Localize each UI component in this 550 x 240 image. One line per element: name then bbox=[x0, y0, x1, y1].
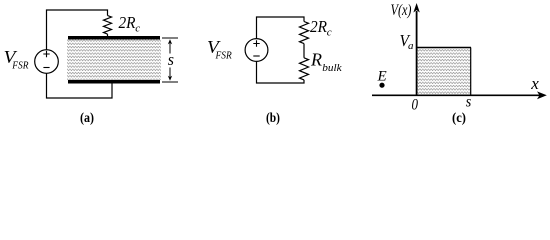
voltage source VFSR (panel b) bbox=[245, 39, 268, 62]
wire: resistor bottom to top electrode bbox=[107, 34, 109, 37]
svg-text:2R: 2R bbox=[119, 13, 136, 32]
svg-text:c: c bbox=[135, 23, 140, 35]
bulk material (hatched) bbox=[67, 40, 161, 81]
svg-text:s: s bbox=[466, 93, 472, 110]
hatched region under V(x) curve bbox=[418, 48, 471, 96]
svg-text:(a): (a) bbox=[80, 111, 94, 126]
plus sign bbox=[253, 40, 259, 46]
svg-text:E: E bbox=[377, 69, 387, 85]
plus sign bbox=[43, 51, 49, 57]
svg-text:c: c bbox=[327, 27, 332, 39]
svg-text:a: a bbox=[408, 40, 414, 52]
x axis arrowhead bbox=[537, 91, 547, 99]
point dot for E bbox=[379, 83, 384, 88]
voltage source VFSR (panel a) bbox=[35, 50, 59, 74]
curve: right edge at x=s bbox=[470, 48, 472, 96]
resistor 2Rc (panel b) bbox=[300, 22, 309, 44]
resistor Rbulk bbox=[300, 58, 309, 80]
svg-text:s: s bbox=[168, 50, 175, 69]
dimension s : down arrowhead bbox=[168, 76, 172, 81]
wire between resistors bbox=[303, 44, 305, 58]
minus sign bbox=[43, 67, 49, 69]
svg-text:V(x): V(x) bbox=[391, 2, 412, 19]
V axis bbox=[416, 11, 418, 96]
wire: Rbulk bottom back to source bbox=[257, 61, 305, 83]
svg-text:bulk: bulk bbox=[322, 62, 343, 74]
wire: bottom electrode down and back to source bbox=[47, 74, 113, 99]
svg-text:0: 0 bbox=[412, 97, 419, 114]
svg-text:2R: 2R bbox=[310, 17, 327, 36]
top electrode plate bbox=[68, 36, 160, 40]
curve: top edge of potential step bbox=[417, 47, 471, 49]
wire: source top to resistor chain bbox=[257, 17, 305, 39]
svg-text:FSR: FSR bbox=[11, 59, 28, 71]
svg-text:R: R bbox=[310, 49, 322, 69]
svg-text:(c): (c) bbox=[452, 111, 466, 126]
svg-text:(b): (b) bbox=[266, 111, 280, 126]
bottom electrode plate bbox=[68, 80, 160, 84]
svg-text:x: x bbox=[530, 74, 539, 93]
x axis bbox=[372, 94, 540, 96]
dimension s : arrow line upper segment bbox=[169, 41, 171, 54]
resistor 2Rc (panel a) bbox=[104, 16, 112, 35]
svg-text:FSR: FSR bbox=[215, 49, 232, 61]
minus sign bbox=[253, 55, 259, 57]
dimension s : arrow line lower segment bbox=[169, 68, 171, 80]
dimension s : up arrowhead bbox=[168, 39, 172, 44]
dimension s : bottom tick bbox=[162, 81, 178, 83]
dimension s : top tick bbox=[162, 37, 178, 39]
wire: source top to resistor top bbox=[47, 10, 108, 50]
V axis arrowhead bbox=[413, 3, 419, 13]
